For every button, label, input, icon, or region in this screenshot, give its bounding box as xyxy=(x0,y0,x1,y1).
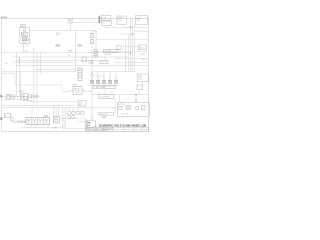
main control valve bank frame xyxy=(26,117,50,124)
wire vertical x20.8 low xyxy=(20,73,22,93)
svg-text:RET: RET xyxy=(54,128,57,130)
wire vertical x96 xyxy=(95,30,97,49)
solenoid valve SV4 xyxy=(108,77,111,83)
wire verticals x53.4 x58.6 xyxy=(53,105,58,116)
accumulator A1 xyxy=(94,50,97,58)
wire bus y34 xyxy=(120,33,135,35)
title block table midline xyxy=(86,128,148,130)
wire ECM pins down xyxy=(104,25,108,27)
wire bank feed up xyxy=(31,108,33,118)
svg-text:FLT: FLT xyxy=(5,116,8,118)
svg-text:OIL COOLER: OIL COOLER xyxy=(100,97,111,99)
wire pilot block up xyxy=(55,108,57,116)
valve bank top circles xyxy=(44,115,46,117)
wire vertical x33.8 xyxy=(33,47,35,105)
wire y121.2 right xyxy=(77,120,89,122)
wire vertical x132.5 xyxy=(132,19,134,72)
brake valve V1 spring xyxy=(22,42,26,43)
valve box VB3 right edge xyxy=(137,74,148,82)
wire bus y31.7 right xyxy=(135,31,148,33)
valve bank cell marks 3 xyxy=(39,119,42,124)
brake valve V1 gauge circle xyxy=(23,29,26,32)
wire bus y69.6 xyxy=(35,69,78,71)
wire valve V1 ports down xyxy=(24,44,28,53)
svg-text:XMSN: XMSN xyxy=(19,91,25,93)
wire verticals x62-x66 xyxy=(62,108,65,128)
wire cluster A main xyxy=(2,96,40,98)
junction dot K xyxy=(23,96,24,97)
pilot block box with circles xyxy=(54,116,60,123)
pump P1 circle xyxy=(7,95,10,98)
wire vertical x75.5 xyxy=(75,30,77,72)
pilot block circle 2 xyxy=(55,119,58,122)
inline valve V6 lower xyxy=(90,40,94,44)
svg-text:CTRL: CTRL xyxy=(138,78,142,80)
flow arrow 2 xyxy=(21,120,23,122)
wire bus y65.5 xyxy=(15,65,149,67)
junction dot E xyxy=(91,118,92,119)
tank internal filter box xyxy=(141,106,145,110)
svg-text:RIDE: RIDE xyxy=(138,76,142,78)
wire bus y105.4 xyxy=(2,104,75,106)
svg-text:ST: ST xyxy=(111,92,113,94)
solenoid S0 body xyxy=(69,21,72,23)
ECM connector tick xyxy=(99,16,101,23)
valve bank cell marks 1 xyxy=(27,119,30,124)
svg-text:COOLER: COOLER xyxy=(105,51,113,53)
wire VB3 to U3 xyxy=(141,82,143,86)
revision box R1 xyxy=(86,121,95,127)
ECM box lower xyxy=(101,21,111,25)
fan valve FV1 spring left xyxy=(71,90,73,91)
tank internal strainer 1 xyxy=(119,106,122,109)
relief valve V3 body xyxy=(78,68,82,81)
wire manifold down xyxy=(104,89,106,95)
wire y122.6 left xyxy=(11,122,27,124)
pump P2 circle xyxy=(12,95,16,99)
wire bus y27.2 xyxy=(104,26,149,28)
wire into fan valve xyxy=(62,91,92,93)
flow arrow 3 xyxy=(24,120,26,122)
wire bus y52 right xyxy=(96,51,149,53)
wire bus y57 xyxy=(12,56,128,58)
svg-text:4ER04: 4ER04 xyxy=(0,18,8,20)
pilot block circle 1 xyxy=(55,117,58,120)
oil cooler flat box xyxy=(99,95,114,99)
wire collector y128.5 xyxy=(62,128,89,130)
drain header flat box xyxy=(100,61,108,64)
wire vertical x40.4 xyxy=(39,53,41,74)
tank internal valve xyxy=(126,106,131,110)
solenoid valve SV3 xyxy=(102,77,105,83)
wire bus y73.4 xyxy=(2,72,15,74)
pump P8b circle xyxy=(72,115,75,118)
wire bus y71.5 mid xyxy=(92,71,135,73)
wire solenoid S0 down xyxy=(69,23,71,30)
zone mark left upper xyxy=(0,95,2,97)
zone mark left lower xyxy=(0,117,2,120)
wire drops from valve bank xyxy=(28,125,48,128)
svg-text:ECM: ECM xyxy=(102,18,106,20)
fan valve FV1 body xyxy=(73,87,82,95)
motor group M2 circle 2 xyxy=(24,97,27,100)
junction dot L xyxy=(23,100,24,101)
junction box J2 top-right xyxy=(135,16,148,24)
filter assembly box bottom-left xyxy=(5,114,11,118)
hydraulic tank box xyxy=(118,102,150,116)
wire y46.4 xyxy=(121,45,138,47)
junction dot M xyxy=(69,55,70,56)
sheet border frame xyxy=(1,18,149,131)
wire vertical x134.6 xyxy=(134,24,136,71)
junction dot I xyxy=(13,96,14,97)
wire collector y127.6 xyxy=(22,127,66,129)
motor group M2 circle 1 xyxy=(21,95,24,98)
tank internal pump circle xyxy=(135,106,138,109)
svg-text:PORT: PORT xyxy=(56,46,61,48)
motor group M2 box xyxy=(20,94,28,100)
svg-text:P2: P2 xyxy=(5,63,7,65)
pump P4 circle xyxy=(76,111,80,115)
brake valve V1 pilot circle xyxy=(27,39,29,41)
svg-text:VALVE: VALVE xyxy=(20,25,26,28)
solenoid valve SV2 xyxy=(96,77,99,83)
svg-text:CN2: CN2 xyxy=(94,32,97,34)
filter F1 box xyxy=(82,57,87,62)
wire bus y52.6 xyxy=(2,52,130,54)
wire vertical x128.2 xyxy=(127,34,129,72)
wire x115 between headers xyxy=(114,99,116,113)
svg-text:OIL: OIL xyxy=(56,35,59,37)
brake valve V1 body xyxy=(20,28,30,44)
pump P1 box xyxy=(6,95,11,100)
svg-text:PORT: PORT xyxy=(78,46,83,48)
valve bank dividers xyxy=(32,117,44,124)
wire vertical x16.5 xyxy=(16,53,18,96)
wire pump drops xyxy=(69,106,78,111)
component U3 box xyxy=(137,85,143,90)
pump P8 circle xyxy=(72,111,75,114)
junction dot F xyxy=(19,58,20,59)
wire drops to solenoid valves xyxy=(92,72,116,78)
relay ACC box xyxy=(138,45,146,50)
junction dot C xyxy=(130,52,131,53)
wire bus y94.6 xyxy=(92,94,149,96)
ECM box upper xyxy=(101,15,110,20)
junction dot N xyxy=(91,73,92,74)
radiator flat box xyxy=(99,112,114,116)
pump P3 circle xyxy=(28,95,32,99)
wire x62 to fan valve xyxy=(61,85,63,92)
wire vertical x92 long xyxy=(91,30,93,119)
brake accumulator box U4 xyxy=(78,101,86,106)
wire solenoid S0 right xyxy=(72,21,101,23)
wire bus y62.3 right xyxy=(115,61,149,63)
wire vertical x19.3 xyxy=(18,57,20,95)
wire y118.8 xyxy=(60,118,86,120)
valve bank cell marks 4 xyxy=(45,119,48,124)
title block table verticals xyxy=(96,127,142,131)
brake valve V1 spool arrows xyxy=(22,33,25,36)
small box left of grid xyxy=(117,45,122,49)
wire bus y101.3 xyxy=(30,100,78,102)
wire x119.6 into tank xyxy=(119,95,121,103)
solenoid valve SV5 xyxy=(114,77,117,83)
wire vertical x37 xyxy=(36,53,38,106)
wire arrow into tank box xyxy=(135,95,137,102)
pump P5 circle xyxy=(80,111,84,115)
wire bus y60.4 xyxy=(15,59,108,61)
svg-text:RET: RET xyxy=(143,59,146,61)
junction dot A xyxy=(130,27,131,28)
wire bus y107.8 xyxy=(2,107,114,109)
junction dot H xyxy=(135,94,136,95)
title block table frame xyxy=(86,127,148,131)
inline valve V6 upper xyxy=(90,34,94,38)
wire valve V1 out right xyxy=(30,29,96,31)
junction dot J xyxy=(17,96,18,97)
valve bank cell marks 2 xyxy=(33,119,36,124)
fan valve FV1 inner marks xyxy=(75,88,80,93)
drain wire to border xyxy=(85,119,87,132)
valve bank top circle 2 xyxy=(46,115,48,117)
pump P3b circle xyxy=(32,95,35,98)
harness box H1 xyxy=(117,16,126,24)
wire vertical x130.4 xyxy=(129,19,131,72)
wire bus y71.8 left xyxy=(2,71,76,73)
wire bus y62.2 left xyxy=(12,61,76,63)
brake valve V1 spool box xyxy=(21,32,27,37)
flow arrow 1 xyxy=(18,120,20,122)
wire cooler down xyxy=(104,52,106,61)
wire y121.2 left xyxy=(14,120,26,122)
svg-text:SUCTION: SUCTION xyxy=(122,114,129,116)
pilot manifold flat box xyxy=(93,86,116,89)
junction dot G xyxy=(19,62,20,63)
cooler circle bottom-left xyxy=(11,118,14,121)
svg-text:DRAIN: DRAIN xyxy=(89,61,95,64)
wire bus y58.7 right xyxy=(115,58,149,60)
wire y84.9 xyxy=(15,84,62,86)
svg-text:12 VDC: 12 VDC xyxy=(140,54,146,56)
wire vertical x125.4 xyxy=(124,40,126,72)
wire verticals x87.5 x89 xyxy=(88,119,90,129)
wire solenoid outlets xyxy=(92,84,116,86)
wire y39.5 xyxy=(96,39,149,41)
wire solenoid base line xyxy=(90,84,119,86)
wire U3 to bus xyxy=(139,90,141,95)
fan valve FV1 spring right xyxy=(82,90,84,91)
pump P6 circle xyxy=(67,111,71,115)
brake valve V1 solenoid marks xyxy=(23,38,26,40)
svg-text:HYD TK: HYD TK xyxy=(119,104,126,106)
junction dot B xyxy=(132,33,133,34)
wire into tank left xyxy=(114,107,118,109)
cooler flat box xyxy=(104,49,119,52)
solenoid valve SV1 xyxy=(90,77,93,83)
pump P7 circle xyxy=(68,115,71,118)
junction dot D xyxy=(88,122,89,123)
pump P3c circle xyxy=(35,95,38,98)
wire cluster A lower xyxy=(2,98,20,100)
wire x15 down xyxy=(14,73,16,85)
brake valve V1 solenoid xyxy=(23,38,27,41)
